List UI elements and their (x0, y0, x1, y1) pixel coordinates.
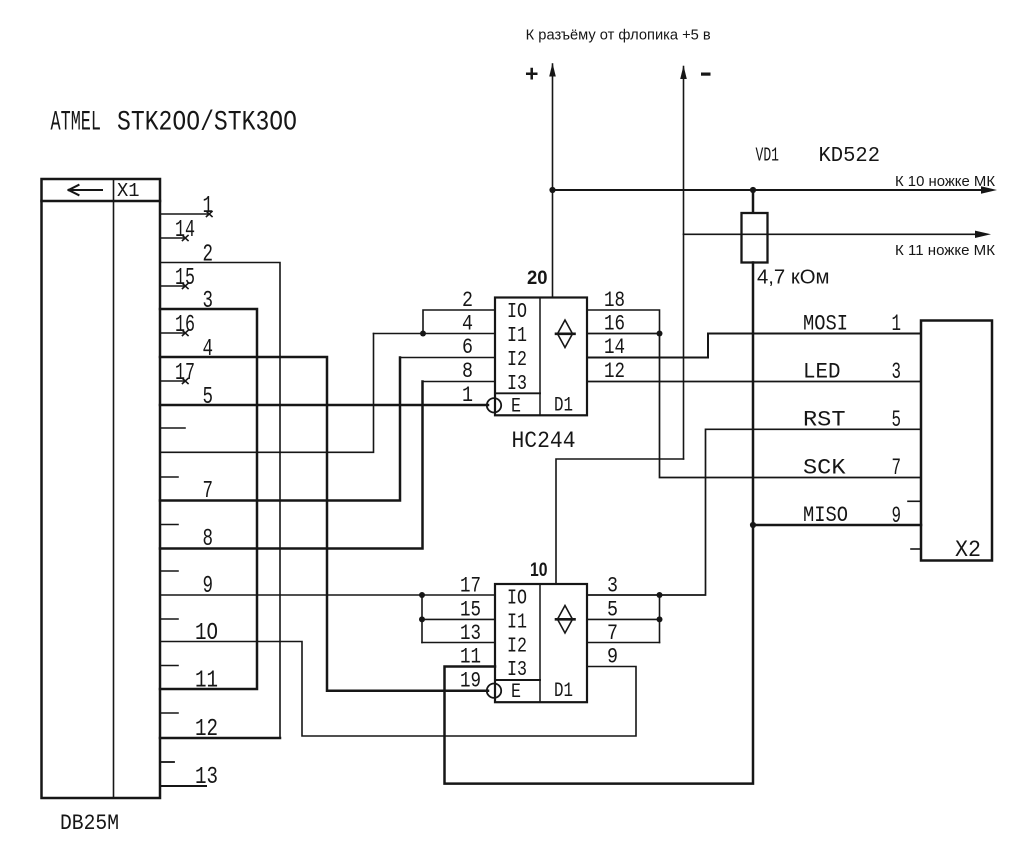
pin 17 wire (160, 379, 188, 384)
svg-text:IO: IO (507, 588, 527, 611)
junction pin9-I0 (419, 592, 425, 598)
D1.2 driver symbol (556, 606, 575, 634)
junction pin9-I1 (419, 616, 425, 622)
svg-text:16: 16 (604, 312, 625, 337)
D1.1 pin 6 wire (400, 357, 495, 359)
svg-text:1: 1 (462, 383, 473, 408)
junction pin5 feeder (657, 616, 663, 622)
svg-text:X2: X2 (955, 537, 981, 563)
pin 7 wire to D1.1 I2 (160, 358, 400, 501)
svg-text:8: 8 (203, 526, 214, 553)
connector X1 DB25M body (42, 179, 161, 798)
svg-text:E: E (511, 681, 521, 704)
svg-text:SCK: SCK (803, 456, 846, 481)
svg-text:1O: 1O (195, 620, 218, 647)
junction MISO pullup (750, 522, 756, 528)
pin 3 wire to pin 11 loopback (160, 309, 257, 689)
D1.1 pin 12 wire to LED (587, 381, 921, 383)
svg-text:VD1: VD1 (756, 145, 780, 167)
svg-text:8: 8 (462, 359, 473, 384)
resistor lead bottom (752, 263, 755, 526)
plus rail wire to D1.1 pin 20 (552, 64, 554, 298)
svg-text:5: 5 (892, 407, 902, 433)
junction resistor top (750, 187, 756, 193)
svg-text:D1: D1 (554, 395, 573, 418)
pin 14 wire (160, 236, 188, 241)
K11 arrowhead (975, 231, 991, 238)
pin 1 wire (160, 212, 212, 217)
pin 24 stub (160, 712, 178, 714)
pin 20 stub (160, 524, 178, 526)
svg-text:4,7 кОм: 4,7 кОм (757, 267, 830, 289)
junction pin3-pin5 (657, 592, 663, 598)
svg-text:MOSI: MOSI (803, 312, 848, 337)
D1.2 pin 5 wire (587, 618, 660, 620)
pin 15 wire (160, 284, 188, 289)
svg-text:I3: I3 (507, 659, 527, 682)
D1.1 pin 2 wire (423, 310, 495, 334)
buffer D1.1 HC244 body (495, 298, 587, 416)
svg-text:MISO: MISO (803, 503, 848, 528)
X2 stub pin (911, 548, 921, 550)
pin 18 stub (160, 427, 185, 429)
svg-text:5: 5 (203, 384, 214, 411)
svg-text:IO: IO (507, 301, 527, 324)
svg-text:20: 20 (527, 268, 548, 289)
pin 16 wire (160, 331, 188, 336)
pin 21 stub (160, 570, 178, 572)
junction pin4-pin2 (420, 331, 426, 337)
pin 8 wire to D1.1 I3 (160, 382, 423, 549)
svg-text:4: 4 (203, 336, 214, 363)
svg-text:14: 14 (604, 335, 625, 360)
svg-text:2: 2 (203, 242, 214, 269)
pin 13 wire (160, 785, 206, 787)
D1.2 pin 3 wire to RST (587, 429, 921, 595)
svg-text:D1: D1 (554, 680, 573, 703)
svg-text:ATMEL: ATMEL (51, 108, 102, 139)
D1.2 output feeder wire (659, 595, 661, 643)
svg-text:DB25M: DB25M (60, 811, 119, 836)
svg-text:RST: RST (803, 407, 846, 432)
svg-text:LED: LED (803, 360, 841, 385)
D1.1 pin 18 wire (587, 310, 660, 334)
svg-text:E: E (511, 396, 521, 419)
D1.2 pin 11 wire to MISO pullup (445, 525, 754, 784)
D1.1 enable circle (487, 398, 501, 412)
minus rail arrowhead (680, 66, 687, 80)
svg-text:3: 3 (892, 359, 902, 385)
svg-text:16: 16 (175, 312, 195, 339)
pin 23 stub (160, 665, 178, 667)
title ATMEL STK200/STK300 (51, 108, 298, 139)
svg-text:5: 5 (607, 598, 618, 623)
svg-text:HC244: HC244 (512, 428, 576, 454)
svg-text:13: 13 (460, 621, 481, 646)
svg-text:9: 9 (203, 573, 214, 600)
svg-text:К 10 ножке МК: К 10 ножке МК (895, 173, 995, 190)
wire to pin 11 of MCU (684, 233, 979, 235)
X2 stub pin (908, 500, 921, 502)
svg-text:STK2OO/STK3OO: STK2OO/STK3OO (117, 108, 297, 139)
pin 4 wire to D1.2 enable (160, 357, 488, 691)
pin 9 wire to D1.2 inputs (160, 594, 495, 596)
pin 5 wire to D1.1 enable (160, 404, 488, 407)
K10 arrowhead (981, 186, 997, 193)
svg-text:К 11 ножке МК: К 11 ножке МК (895, 242, 995, 259)
svg-text:1: 1 (892, 311, 902, 337)
svg-text:3: 3 (203, 288, 214, 315)
svg-text:15: 15 (460, 598, 481, 623)
svg-text:9: 9 (892, 503, 902, 529)
svg-text:13: 13 (195, 764, 218, 791)
svg-text:10: 10 (530, 560, 548, 581)
svg-text:I2: I2 (507, 349, 527, 372)
svg-text:4: 4 (462, 312, 473, 337)
X1 header arrow (69, 185, 103, 195)
D1.2 pin 13 wire (422, 642, 495, 644)
svg-text:3: 3 (607, 574, 618, 599)
resistor lead top (752, 190, 755, 213)
D1.2 pin 10 wire to minus rail (556, 459, 684, 584)
D1.1 driver symbol (556, 320, 575, 348)
pin 10 wire to D1.2 output 9 (160, 642, 636, 737)
pin 12 wire (160, 737, 280, 740)
svg-text:KD522: KD522 (819, 145, 881, 168)
svg-text:I2: I2 (507, 636, 527, 659)
svg-text:1: 1 (203, 193, 214, 220)
D1.1 pin 8 wire (423, 381, 496, 383)
buffer D1.2 HC244 body (495, 584, 587, 702)
svg-text:17: 17 (175, 360, 195, 387)
minus sign (701, 73, 711, 76)
wire to pin 10 of MCU (553, 189, 985, 191)
pin 6 wire to D1.1 I1 (160, 334, 374, 453)
svg-text:К разъёму от флопика +5 в: К разъёму от флопика +5 в (526, 28, 711, 44)
svg-text:11: 11 (460, 645, 481, 670)
svg-text:X1: X1 (117, 180, 140, 202)
pin 22 stub (160, 618, 178, 620)
svg-text:15: 15 (175, 265, 195, 292)
svg-text:7: 7 (892, 455, 902, 481)
svg-text:18: 18 (604, 288, 625, 313)
pin 25 stub (160, 761, 174, 763)
svg-text:14: 14 (175, 217, 195, 244)
svg-text:9: 9 (607, 645, 618, 670)
pin 19 stub (160, 476, 178, 478)
svg-text:7: 7 (203, 478, 214, 505)
svg-text:17: 17 (460, 574, 481, 599)
D1.1 pin 4 wire (374, 333, 496, 335)
D1.2 pin 7 wire (587, 642, 660, 644)
svg-text:I3: I3 (507, 373, 527, 396)
svg-text:I1: I1 (507, 612, 527, 635)
plus rail arrowhead (549, 63, 556, 77)
svg-text:11: 11 (195, 668, 218, 695)
svg-text:2: 2 (462, 288, 473, 313)
svg-text:12: 12 (195, 716, 218, 743)
svg-text:7: 7 (607, 621, 618, 646)
MISO wire (753, 524, 921, 527)
D1.1 pin 14 wire to MOSI (587, 334, 921, 358)
junction plus rail / K10 line (549, 187, 555, 193)
svg-text:19: 19 (460, 669, 481, 694)
connector X2 body (921, 321, 992, 561)
D1.2 enable circle (487, 684, 501, 698)
pin 2 wire to pin 12 loopback (160, 263, 280, 739)
minus rail wire (683, 67, 685, 460)
svg-text:6: 6 (462, 335, 473, 360)
junction pin16-pin18 (657, 331, 663, 337)
D1.1 pin 16 wire to SCK (587, 334, 921, 478)
D1.2 pin 15 wire (422, 618, 495, 620)
svg-text:I1: I1 (507, 325, 527, 348)
svg-text:+: + (525, 61, 538, 87)
svg-text:12: 12 (604, 359, 625, 384)
D1.2 input feeder wire (421, 595, 423, 643)
resistor R1 4.7k body (742, 213, 768, 263)
